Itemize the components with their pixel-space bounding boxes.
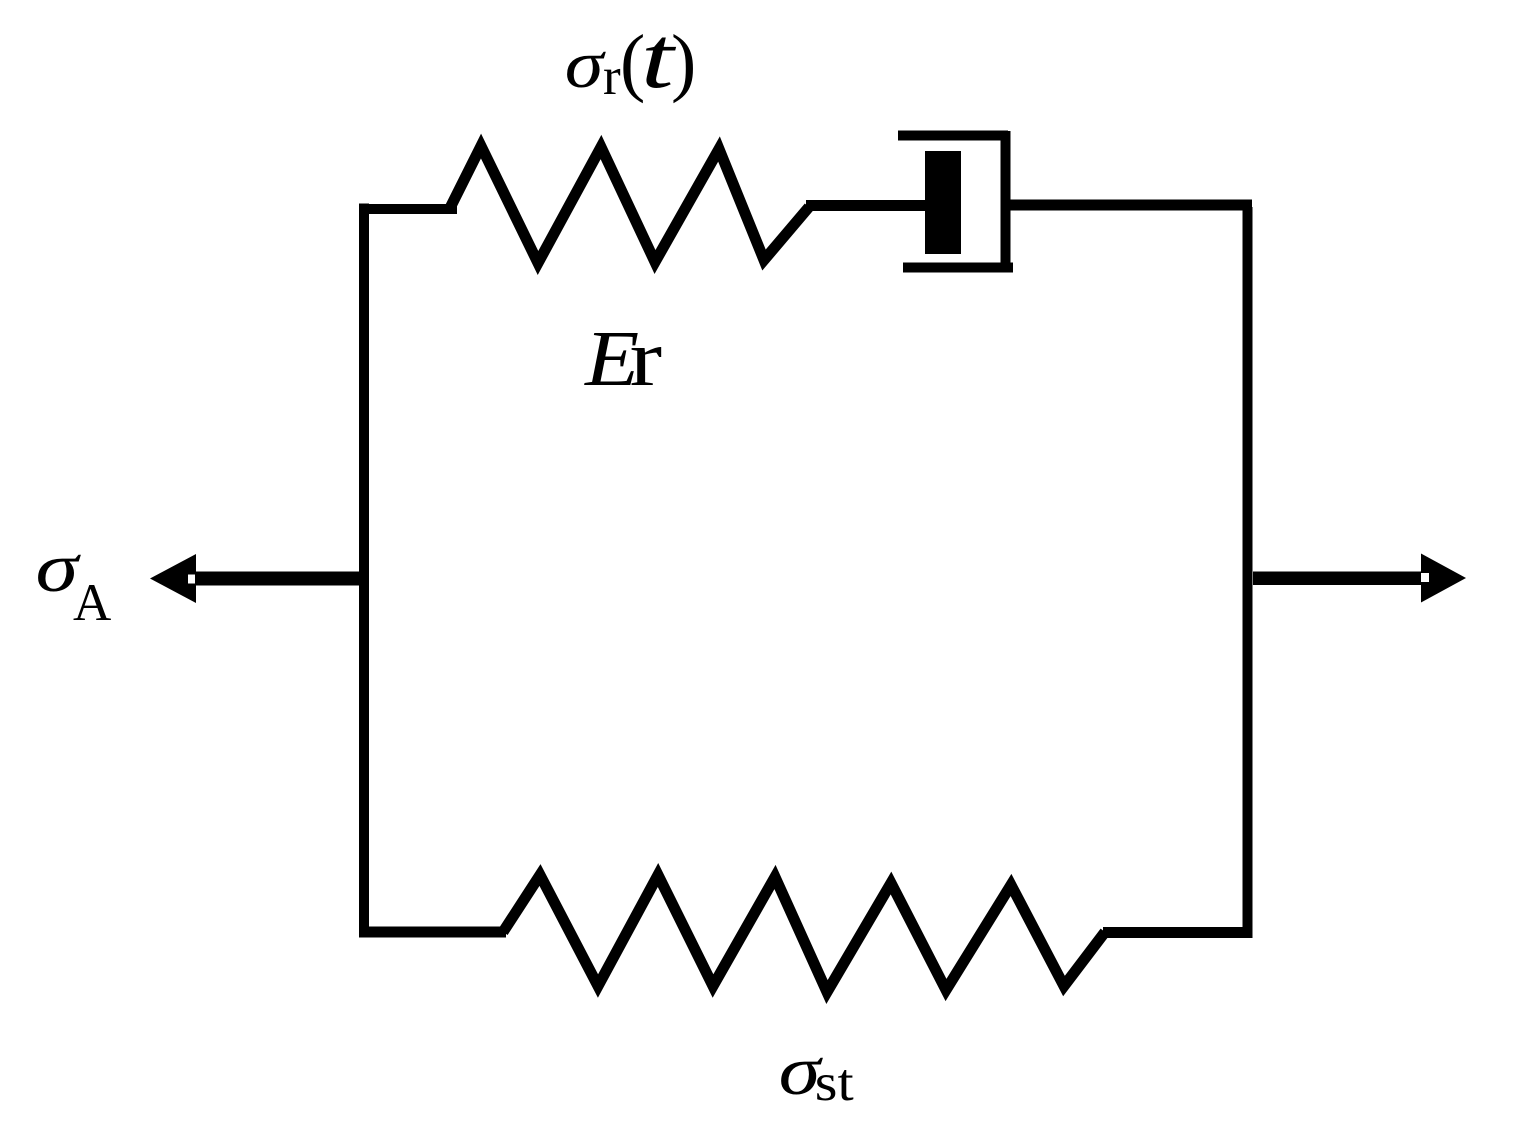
svg-text:σ: σ (565, 27, 607, 102)
wire: right vertical branch bus (1243, 207, 1253, 938)
label sigma_st (bottom branch stress) (779, 1032, 855, 1113)
svg-text:): ) (671, 20, 696, 104)
svg-text:r: r (603, 48, 621, 106)
wire: piston rod (spring to dashpot piston) (806, 200, 927, 211)
wire: left vertical branch bus (359, 204, 369, 938)
dashpot cylinder right wall (1001, 131, 1011, 267)
dashpot cylinder bottom wall (903, 263, 1013, 273)
wire: top-left horizontal segment (359, 204, 457, 214)
svg-text:r: r (630, 315, 662, 403)
spring (bottom branch zigzag, sigma_st) (503, 875, 1105, 992)
arrow: applied stress, right side (1253, 554, 1466, 603)
wire: bottom-right horizontal segment (1103, 927, 1253, 938)
spring Er (top branch zigzag) (450, 146, 809, 263)
svg-text:A: A (73, 574, 111, 632)
label sigma_r(t) (top branch stress) (565, 9, 697, 107)
arrow: applied stress sigma_A, left side (150, 554, 364, 603)
label Er (spring modulus) (584, 315, 662, 403)
wire: dashpot to top-right corner (1010, 200, 1252, 211)
label sigma_A (applied stress, left) (36, 530, 112, 632)
svg-text:st: st (815, 1053, 854, 1112)
dashpot cylinder top wall (898, 131, 1008, 141)
wire: bottom-left horizontal segment (359, 927, 506, 938)
dashpot piston plate (925, 151, 961, 254)
